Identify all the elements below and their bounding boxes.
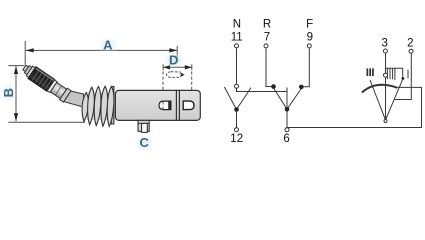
svg-text:7: 7 [264,32,270,44]
svg-text:B: B [1,88,16,97]
svg-text:9: 9 [307,32,313,44]
svg-text:A: A [103,37,113,52]
svg-text:F: F [306,18,313,30]
svg-text:6: 6 [283,133,289,145]
svg-text:C: C [140,135,150,150]
svg-text:D: D [169,52,178,67]
svg-text:3: 3 [381,37,387,49]
svg-text:R: R [263,18,271,30]
svg-text:12: 12 [230,133,243,145]
svg-text:2: 2 [407,38,413,50]
svg-text:11: 11 [231,32,243,44]
svg-text:N: N [233,18,241,30]
